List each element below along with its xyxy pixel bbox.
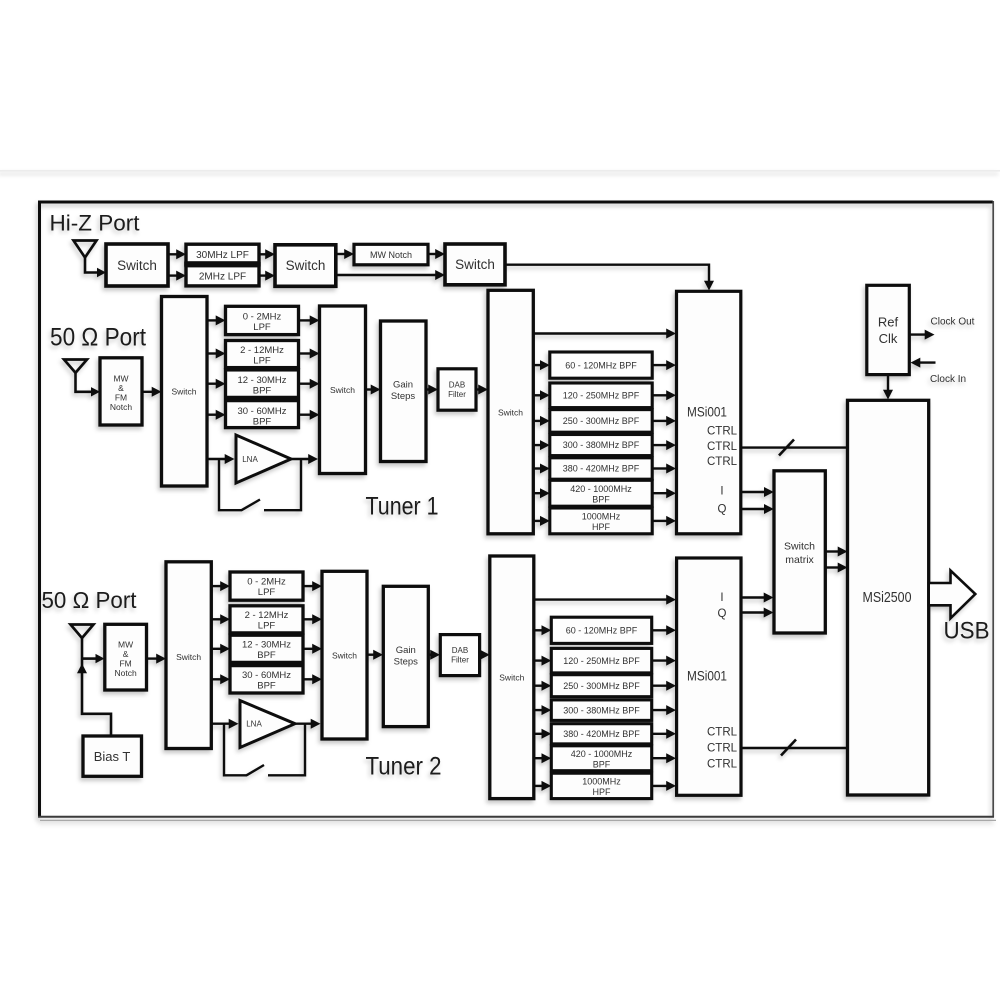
svg-text:LPF: LPF (253, 322, 271, 333)
svg-text:12 - 30MHz: 12 - 30MHz (237, 375, 286, 386)
filter 300 - 380MHz BPF (T1) (550, 435, 652, 456)
svg-text:30 - 60MHz: 30 - 60MHz (242, 670, 291, 681)
svg-text:420 - 1000MHz: 420 - 1000MHz (570, 484, 632, 494)
filter 30-60MHz BPF (T1) (226, 401, 299, 428)
svg-text:MSi001: MSi001 (687, 669, 727, 684)
wire SWA to LNA (T1) (207, 454, 235, 464)
svg-text:Switch: Switch (455, 257, 495, 272)
wire SWC to 380 - 420MHz BPF (T1) (533, 464, 550, 474)
bus U2 CTRL to MSi2500 (741, 747, 848, 749)
wire 1000MHz HPF to MSi001 U1 (652, 516, 676, 526)
wire SW3 to MSi001 U1 (505, 265, 709, 282)
filter 30MHz LPF (186, 244, 259, 265)
wire SWA to T1 filter 2 (207, 349, 226, 359)
svg-text:Clk: Clk (879, 331, 898, 346)
filter 420-1000MHz BPF (T1) (550, 480, 652, 506)
svg-text:Ref: Ref (878, 315, 899, 330)
filter 380 - 420MHz BPF (T2) (551, 724, 651, 744)
wire 420-1000MHz BPF to MSi001 U1 (652, 488, 676, 498)
svg-text:12 - 30MHz: 12 - 30MHz (242, 639, 291, 650)
wire SW2 to MW Notch (336, 249, 354, 259)
wire ANT1 to SW1 (97, 268, 106, 277)
wire U2 Q out to switch matrix (741, 608, 774, 618)
filter DAB Filter (T2) (440, 635, 479, 676)
wire SW1 to 30MHz LPF (168, 249, 186, 259)
svg-text:Filter: Filter (451, 656, 469, 665)
wire 300 - 380MHz BPF to MSi001 U2 (652, 705, 676, 715)
wire U1 I out to switch matrix (741, 487, 774, 497)
svg-text:120 - 250MHz BPF: 120 - 250MHz BPF (563, 391, 640, 401)
switch SWC2 (T2) (490, 556, 534, 799)
filter 2-12MHz LPF (T1) (226, 341, 299, 368)
filter MW FM Notch (Tuner 1) (100, 358, 142, 425)
wire T2 filter 4 to SWB2 (303, 674, 322, 684)
svg-text:Tuner 1: Tuner 1 (366, 493, 439, 521)
svg-text:HPF: HPF (593, 787, 612, 797)
svg-text:Switch: Switch (286, 258, 326, 273)
wire 60 - 120MHz BPF to MSi001 U1 (652, 360, 676, 370)
svg-text:LNA: LNA (246, 720, 262, 729)
svg-text:420 - 1000MHz: 420 - 1000MHz (571, 749, 633, 759)
svg-text:LPF: LPF (258, 620, 276, 631)
svg-text:0 - 2MHz: 0 - 2MHz (243, 312, 282, 323)
filter 60 - 120MHz BPF (T2) (551, 617, 651, 643)
wire SW2 to SW3 bypass (336, 270, 445, 280)
svg-text:MW: MW (118, 640, 133, 650)
wire SWC2 to 1000MHz HPF (T2) (534, 781, 552, 791)
svg-text:120 - 250MHz BPF: 120 - 250MHz BPF (563, 656, 640, 666)
svg-text:BPF: BPF (253, 417, 272, 428)
svg-text:DAB: DAB (452, 646, 468, 655)
svg-text:MW Notch: MW Notch (370, 250, 412, 260)
wire U1 Q out to switch matrix (741, 504, 774, 514)
svg-text:Clock In: Clock In (930, 374, 966, 385)
wire SWA2 to T2 filter 2 (211, 614, 230, 624)
wire notch to SWA (142, 387, 162, 397)
svg-text:2MHz LPF: 2MHz LPF (199, 271, 246, 282)
wire 300 - 380MHz BPF to MSi001 U1 (652, 440, 676, 450)
wire SWC2 to 380 - 420MHz BPF (T2) (534, 729, 552, 739)
switch SWA2 (Tuner 2 input switch) (166, 562, 211, 749)
wire SW1 to 2MHz LPF (168, 271, 186, 281)
svg-text:30MHz LPF: 30MHz LPF (196, 250, 249, 261)
filter 60 - 120MHz BPF (T1) (550, 352, 652, 378)
switch SW1 (106, 244, 168, 286)
wire SWA to T1 filter 4 (207, 410, 226, 420)
antenna ANT1 (Hi-Z) (74, 241, 97, 258)
tuner chip MSi001 U2 (677, 558, 741, 795)
wire SWC2 to 60 - 120MHz BPF (T2) (534, 625, 552, 635)
svg-text:Gain: Gain (396, 645, 416, 656)
wire U2 I out to switch matrix (741, 593, 774, 603)
wire SWA2 to T2 filter 4 (211, 674, 230, 684)
filter 2MHz LPF (186, 264, 259, 286)
wire SWC2 to 250 - 300MHz BPF (T2) (534, 681, 552, 691)
svg-text:BPF: BPF (593, 760, 611, 770)
filter 1000MHz HPF (T2) (551, 773, 651, 798)
svg-text:60 - 120MHz BPF: 60 - 120MHz BPF (566, 626, 638, 636)
svg-text:Gain: Gain (393, 380, 413, 391)
frame border (40, 202, 993, 817)
switch SW3 (445, 244, 505, 285)
wire SWA2 to T2 filter 1 (211, 581, 230, 591)
switch SW2 (275, 245, 336, 286)
wire SWA2 to T2 filter 3 (211, 644, 230, 654)
filter 250 - 300MHz BPF (T1) (550, 410, 652, 433)
reference clock Ref Clk (867, 285, 910, 374)
svg-text:&: & (123, 649, 129, 659)
svg-text:MSi001: MSi001 (687, 405, 727, 420)
svg-text:BPF: BPF (257, 680, 276, 691)
wire 1000MHz HPF to MSi001 U2 (652, 781, 676, 791)
svg-text:LNA: LNA (242, 455, 258, 464)
wire Bias T feed up arrow (77, 664, 87, 674)
wire T2 filter 3 to SWB2 (303, 644, 322, 654)
wire SWC2 to 420-1000MHz BPF (T2) (534, 753, 552, 763)
svg-text:USB: USB (944, 618, 990, 645)
wire T1 filter 4 to SWB (299, 410, 320, 420)
wire T2 filter 1 to SWB2 (303, 581, 322, 591)
svg-text:30 - 60MHz: 30 - 60MHz (237, 406, 286, 417)
svg-text:CTRL: CTRL (707, 743, 738, 755)
wire SWA to T1 filter 1 (207, 315, 226, 325)
wire SWC to 60 - 120MHz BPF (T1) (533, 360, 550, 370)
svg-text:Filter: Filter (448, 390, 466, 399)
wire SWC to 420-1000MHz BPF (T1) (533, 488, 550, 498)
svg-text:MSi2500: MSi2500 (863, 590, 912, 606)
wire T1 filter 3 to SWB (299, 379, 320, 389)
svg-text:MW: MW (113, 374, 128, 384)
wire Clock In (911, 358, 936, 368)
switch SWA (Tuner 1 input switch) (162, 297, 208, 487)
svg-text:BPF: BPF (253, 386, 272, 397)
wire DAB Filter to SWC (T1) (476, 385, 488, 395)
filter 380 - 420MHz BPF (T1) (550, 458, 652, 479)
amplifier LNA (T1) (236, 435, 291, 483)
svg-text:Steps: Steps (391, 391, 416, 402)
svg-text:380 - 420MHz BPF: 380 - 420MHz BPF (563, 729, 640, 739)
wire 250 - 300MHz BPF to MSi001 U2 (652, 681, 676, 691)
switch SWC (T1) (488, 290, 533, 534)
bypass switch contact (T1) (219, 459, 242, 510)
svg-text:I: I (720, 592, 723, 604)
wire ANT2 to MW FM notch (91, 387, 100, 396)
ADC chip MSi2500 U4 (848, 400, 929, 795)
svg-text:DAB: DAB (449, 381, 465, 390)
wire Ref Clk to MSi2500 (887, 375, 889, 391)
gain block Gain Steps (T2) (383, 586, 428, 726)
filter DAB Filter (T1) (438, 369, 476, 410)
connector USB arrow (929, 571, 976, 619)
svg-text:Switch: Switch (499, 673, 524, 683)
switch SWB (T1) (320, 306, 366, 474)
svg-text:LPF: LPF (258, 587, 276, 598)
wire 60 - 120MHz BPF to MSi001 U2 (652, 625, 676, 635)
svg-text:I: I (720, 486, 723, 498)
svg-text:Bias T: Bias T (94, 749, 131, 764)
wire SWC2 direct to MSi001 U2 (534, 595, 676, 605)
svg-text:Steps: Steps (394, 657, 419, 668)
svg-text:CTRL: CTRL (707, 456, 738, 468)
svg-text:Switch: Switch (171, 387, 196, 397)
svg-text:Switch: Switch (117, 258, 157, 273)
filter 0 - 2MHz LPF (T2) (230, 572, 303, 600)
filter MW Notch (354, 244, 428, 264)
svg-text:BPF: BPF (592, 495, 610, 505)
wire LNA to SWB (T1) (289, 454, 318, 464)
wire 120 - 250MHz BPF to MSi001 U2 (652, 656, 676, 666)
svg-text:300 - 380MHz BPF: 300 - 380MHz BPF (563, 440, 640, 450)
wire SWB to Gain Steps (T1) (366, 385, 381, 395)
wire T1 filter 2 to SWB (299, 349, 320, 359)
paper edge shading (0, 170, 1000, 172)
filter 250 - 300MHz BPF (T2) (551, 675, 651, 697)
filter 300 - 380MHz BPF (T2) (551, 700, 651, 721)
filter 0-2MHz LPF (T1) (226, 306, 299, 334)
svg-text:&: & (118, 383, 124, 393)
tuner chip MSi001 U1 (677, 291, 741, 534)
filter 420-1000MHz BPF (T2) (551, 746, 651, 771)
gain block Gain Steps (T1) (381, 321, 427, 462)
svg-text:BPF: BPF (257, 650, 276, 661)
amplifier LNA (T2) (240, 701, 295, 748)
wire SWC to 250 - 300MHz BPF (T1) (533, 416, 550, 426)
wire SWA to T1 filter 3 (207, 379, 226, 389)
wire 420-1000MHz BPF to MSi001 U2 (652, 753, 676, 763)
svg-text:Notch: Notch (114, 668, 136, 678)
wire SWB2 to Gain Steps (T2) (367, 650, 383, 660)
wire switch matrix out 2 to MSi2500 (825, 563, 847, 573)
svg-text:1000MHz: 1000MHz (582, 777, 621, 787)
wire SWC to 300 - 380MHz BPF (T1) (533, 440, 550, 450)
filter 12 - 30MHz BPF (T2) (230, 635, 303, 662)
wire Gain Steps to DAB Filter (T1) (426, 385, 438, 395)
svg-text:FM: FM (119, 659, 131, 669)
filter 120 - 250MHz BPF (T1) (550, 383, 652, 408)
svg-text:50 Ω Port: 50 Ω Port (42, 587, 138, 613)
svg-text:Clock Out: Clock Out (931, 317, 975, 328)
wire LNA to SWB2 (T2) (293, 719, 321, 729)
svg-text:CTRL: CTRL (707, 727, 738, 739)
wire MW Notch to SW3 (428, 249, 445, 259)
svg-text:2 - 12MHz: 2 - 12MHz (240, 345, 284, 356)
svg-text:FM: FM (115, 393, 127, 403)
filter 30 - 60MHz BPF (T2) (230, 666, 303, 693)
switch matrix U3 (774, 471, 825, 633)
switch SWB2 (T2) (322, 571, 367, 739)
wire notch to SWA2 (147, 654, 167, 664)
svg-text:Q: Q (718, 504, 727, 516)
svg-text:CTRL: CTRL (707, 441, 738, 453)
svg-text:Q: Q (718, 608, 727, 620)
svg-text:Switch: Switch (332, 651, 357, 661)
filter MW FM Notch (Tuner 2) (105, 624, 147, 690)
wire SWC to 120 - 250MHz BPF (T1) (533, 390, 550, 400)
wire T2 filter 2 to SWB2 (303, 614, 322, 624)
wire ANT3 to MW FM notch (82, 657, 97, 660)
svg-text:300 - 380MHz BPF: 300 - 380MHz BPF (563, 705, 640, 715)
wire SWC2 to 300 - 380MHz BPF (T2) (534, 705, 552, 715)
wire SWA2 to LNA (T2) (211, 719, 238, 729)
wire SWC to 1000MHz HPF (T1) (533, 516, 550, 526)
bus U1 CTRL to MSi2500 (741, 446, 848, 448)
svg-text:CTRL: CTRL (707, 426, 738, 438)
svg-text:1000MHz: 1000MHz (582, 512, 621, 522)
wire SWC2 to 120 - 250MHz BPF (T2) (534, 656, 552, 666)
svg-text:HPF: HPF (592, 522, 611, 532)
wire Clock Out (909, 330, 934, 340)
filter 2 - 12MHz LPF (T2) (230, 606, 303, 633)
wire DAB Filter to SWC2 (T2) (480, 650, 490, 660)
svg-text:Switch: Switch (498, 408, 523, 418)
svg-text:Tuner 2: Tuner 2 (366, 753, 442, 781)
svg-text:2 - 12MHz: 2 - 12MHz (245, 610, 289, 621)
antenna ANT2 (Tuner 1) (64, 360, 87, 373)
svg-text:Switch: Switch (176, 652, 201, 662)
wire 30MHz LPF to SW2 (259, 249, 275, 259)
wire 2MHz LPF to SW2 (259, 271, 275, 281)
wire 120 - 250MHz BPF to MSi001 U1 (652, 390, 676, 400)
svg-text:250 - 300MHz BPF: 250 - 300MHz BPF (563, 681, 640, 691)
svg-text:matrix: matrix (785, 554, 814, 566)
wire 380 - 420MHz BPF to MSi001 U2 (652, 729, 676, 739)
svg-text:CTRL: CTRL (707, 759, 738, 771)
wire 250 - 300MHz BPF to MSi001 U1 (652, 416, 676, 426)
svg-text:0 - 2MHz: 0 - 2MHz (247, 577, 286, 588)
wire Gain Steps to DAB Filter (T2) (428, 650, 440, 660)
filter 12-30MHz BPF (T1) (226, 370, 299, 398)
bypass switch contact (T2) (224, 724, 247, 776)
wire SWC direct to MSi001 U1 (533, 329, 676, 339)
bias tee Bias T (83, 736, 142, 776)
svg-text:Switch: Switch (784, 541, 815, 553)
svg-text:380 - 420MHz BPF: 380 - 420MHz BPF (563, 464, 640, 474)
wire T1 filter 1 to SWB (299, 315, 320, 325)
wire 380 - 420MHz BPF to MSi001 U1 (652, 464, 676, 474)
wire switch matrix out 1 to MSi2500 (825, 547, 847, 557)
filter 120 - 250MHz BPF (T2) (551, 648, 651, 673)
svg-text:Hi-Z Port: Hi-Z Port (50, 211, 140, 236)
svg-text:50 Ω Port: 50 Ω Port (50, 324, 146, 352)
svg-text:LPF: LPF (253, 356, 271, 367)
svg-text:Switch: Switch (330, 385, 355, 395)
svg-text:60 - 120MHz BPF: 60 - 120MHz BPF (565, 360, 637, 370)
svg-text:250 - 300MHz BPF: 250 - 300MHz BPF (563, 416, 640, 426)
antenna ANT3 (Tuner 2) (71, 625, 94, 639)
filter 1000MHz HPF (T1) (550, 508, 652, 534)
svg-text:Notch: Notch (110, 402, 132, 412)
